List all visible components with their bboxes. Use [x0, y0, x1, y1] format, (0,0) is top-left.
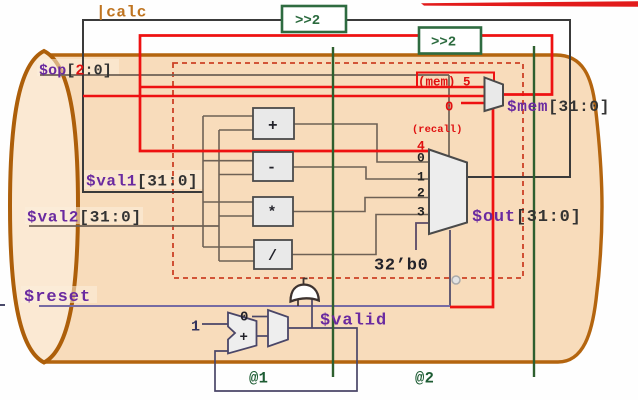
mem label red box	[417, 73, 494, 88]
wire val1 to multiplier	[203, 201, 253, 203]
wire mux bottom to valid line	[449, 230, 451, 306]
wire constant 0 to mux M3	[252, 316, 268, 318]
red top streak	[421, 1, 638, 7]
wire $op horizontal	[40, 74, 449, 76]
staging box >>2 for $mem	[419, 28, 481, 54]
svg-text:>>2: >>2	[431, 35, 456, 51]
svg-text:>>2: >>2	[295, 13, 320, 29]
wire val1 to adder	[203, 115, 253, 117]
wire OR gate left input from reset line	[297, 300, 299, 306]
svg-text:$op[2:0]: $op[2:0]	[39, 63, 112, 80]
label halo $val1	[84, 170, 204, 189]
svg-text:$valid: $valid	[320, 312, 387, 331]
stage line @2	[533, 46, 535, 377]
pipeline left end-cap ellipse	[10, 51, 78, 363]
wire multiplier output to mux input 2	[292, 198, 429, 212]
svg-text:$val1[31:0]: $val1[31:0]	[86, 173, 198, 191]
staging box >>2 for $out	[282, 6, 346, 32]
svg-text:0: 0	[445, 100, 453, 116]
multiplier block *	[253, 197, 293, 226]
dashed stage region rectangle	[173, 63, 523, 278]
wire $val2 bus vertical	[218, 130, 220, 261]
wire $val1 feedback loop through >>2 (dark)	[83, 20, 570, 192]
svg-text:+: +	[268, 117, 278, 135]
svg-text:$mem[31:0]: $mem[31:0]	[507, 98, 610, 116]
svg-text:-: -	[267, 160, 276, 177]
svg-text:+: +	[240, 330, 248, 346]
wire subtractor output to mux input 1	[292, 167, 429, 179]
junction circle on dashed boundary	[452, 276, 460, 284]
svg-text:@2: @2	[415, 370, 434, 388]
divider block /	[254, 240, 292, 269]
wire constant 1 to adder A2	[202, 323, 228, 325]
svg-text:(recall): (recall)	[412, 124, 462, 136]
wire val2 to subtractor	[219, 174, 253, 176]
wire val1 to divider	[203, 246, 254, 248]
wire val2 to multiplier	[219, 215, 253, 217]
wire val2 to divider	[219, 260, 254, 262]
wire OR gate output stub	[304, 279, 308, 285]
wire val2 to adder	[219, 129, 253, 131]
svg-text:2: 2	[417, 186, 425, 201]
svg-text:1: 1	[191, 319, 200, 336]
wire red mem output down loop	[450, 100, 493, 307]
wire adder A2 output to mux M3	[256, 335, 268, 337]
adder block +	[253, 108, 294, 139]
wire adder output to mux input 0	[293, 124, 429, 162]
svg-text:1: 1	[417, 170, 425, 185]
adder A2 (valid counter)	[228, 313, 257, 354]
wire valid branch to OR gate	[311, 299, 313, 328]
label halo $op	[37, 59, 119, 76]
wire $op select down to mux M1	[448, 75, 450, 156]
wire red mem recirculation loop through >>2 and recall to big mux	[140, 36, 552, 152]
svg-text:$out[31:0]: $out[31:0]	[472, 208, 582, 227]
svg-text:(mem) 5: (mem) 5	[418, 76, 471, 90]
wire 32'b0 to mux input	[416, 223, 429, 250]
label halo $reset	[21, 286, 97, 303]
svg-text:|calc: |calc	[96, 4, 147, 22]
wire red store (mem) path	[140, 86, 484, 88]
svg-text:0: 0	[417, 151, 425, 166]
label halo $val2	[25, 207, 143, 224]
wire $val1 bus vertical	[202, 116, 204, 247]
wire red zero path	[83, 95, 484, 97]
wire val1 to subtractor	[203, 160, 253, 162]
wire $valid feedback loop	[215, 328, 357, 391]
svg-text:/: /	[268, 248, 277, 265]
svg-text:3: 3	[417, 205, 425, 220]
stage line @1	[332, 47, 334, 377]
mem mux U2	[485, 78, 504, 112]
wire $reset horizontal	[39, 305, 450, 307]
svg-text:@1: @1	[249, 370, 268, 388]
OR gate G1	[291, 285, 319, 302]
pipeline cylinder body	[44, 55, 602, 362]
subtractor block -	[253, 152, 293, 181]
valid mux M3	[268, 310, 288, 347]
svg-text:$val2[31:0]: $val2[31:0]	[27, 209, 142, 227]
svg-text:32’b0: 32’b0	[374, 257, 429, 276]
svg-text:0: 0	[240, 310, 248, 326]
wire divider output to mux input 3	[292, 215, 429, 255]
svg-text:*: *	[268, 205, 277, 222]
wire $val2 horizontal	[29, 225, 219, 227]
svg-text:$reset: $reset	[24, 288, 91, 307]
wire reset edge tick	[0, 304, 5, 306]
op result mux U1	[429, 150, 467, 235]
wire red zero stub to mem mux	[461, 102, 485, 104]
